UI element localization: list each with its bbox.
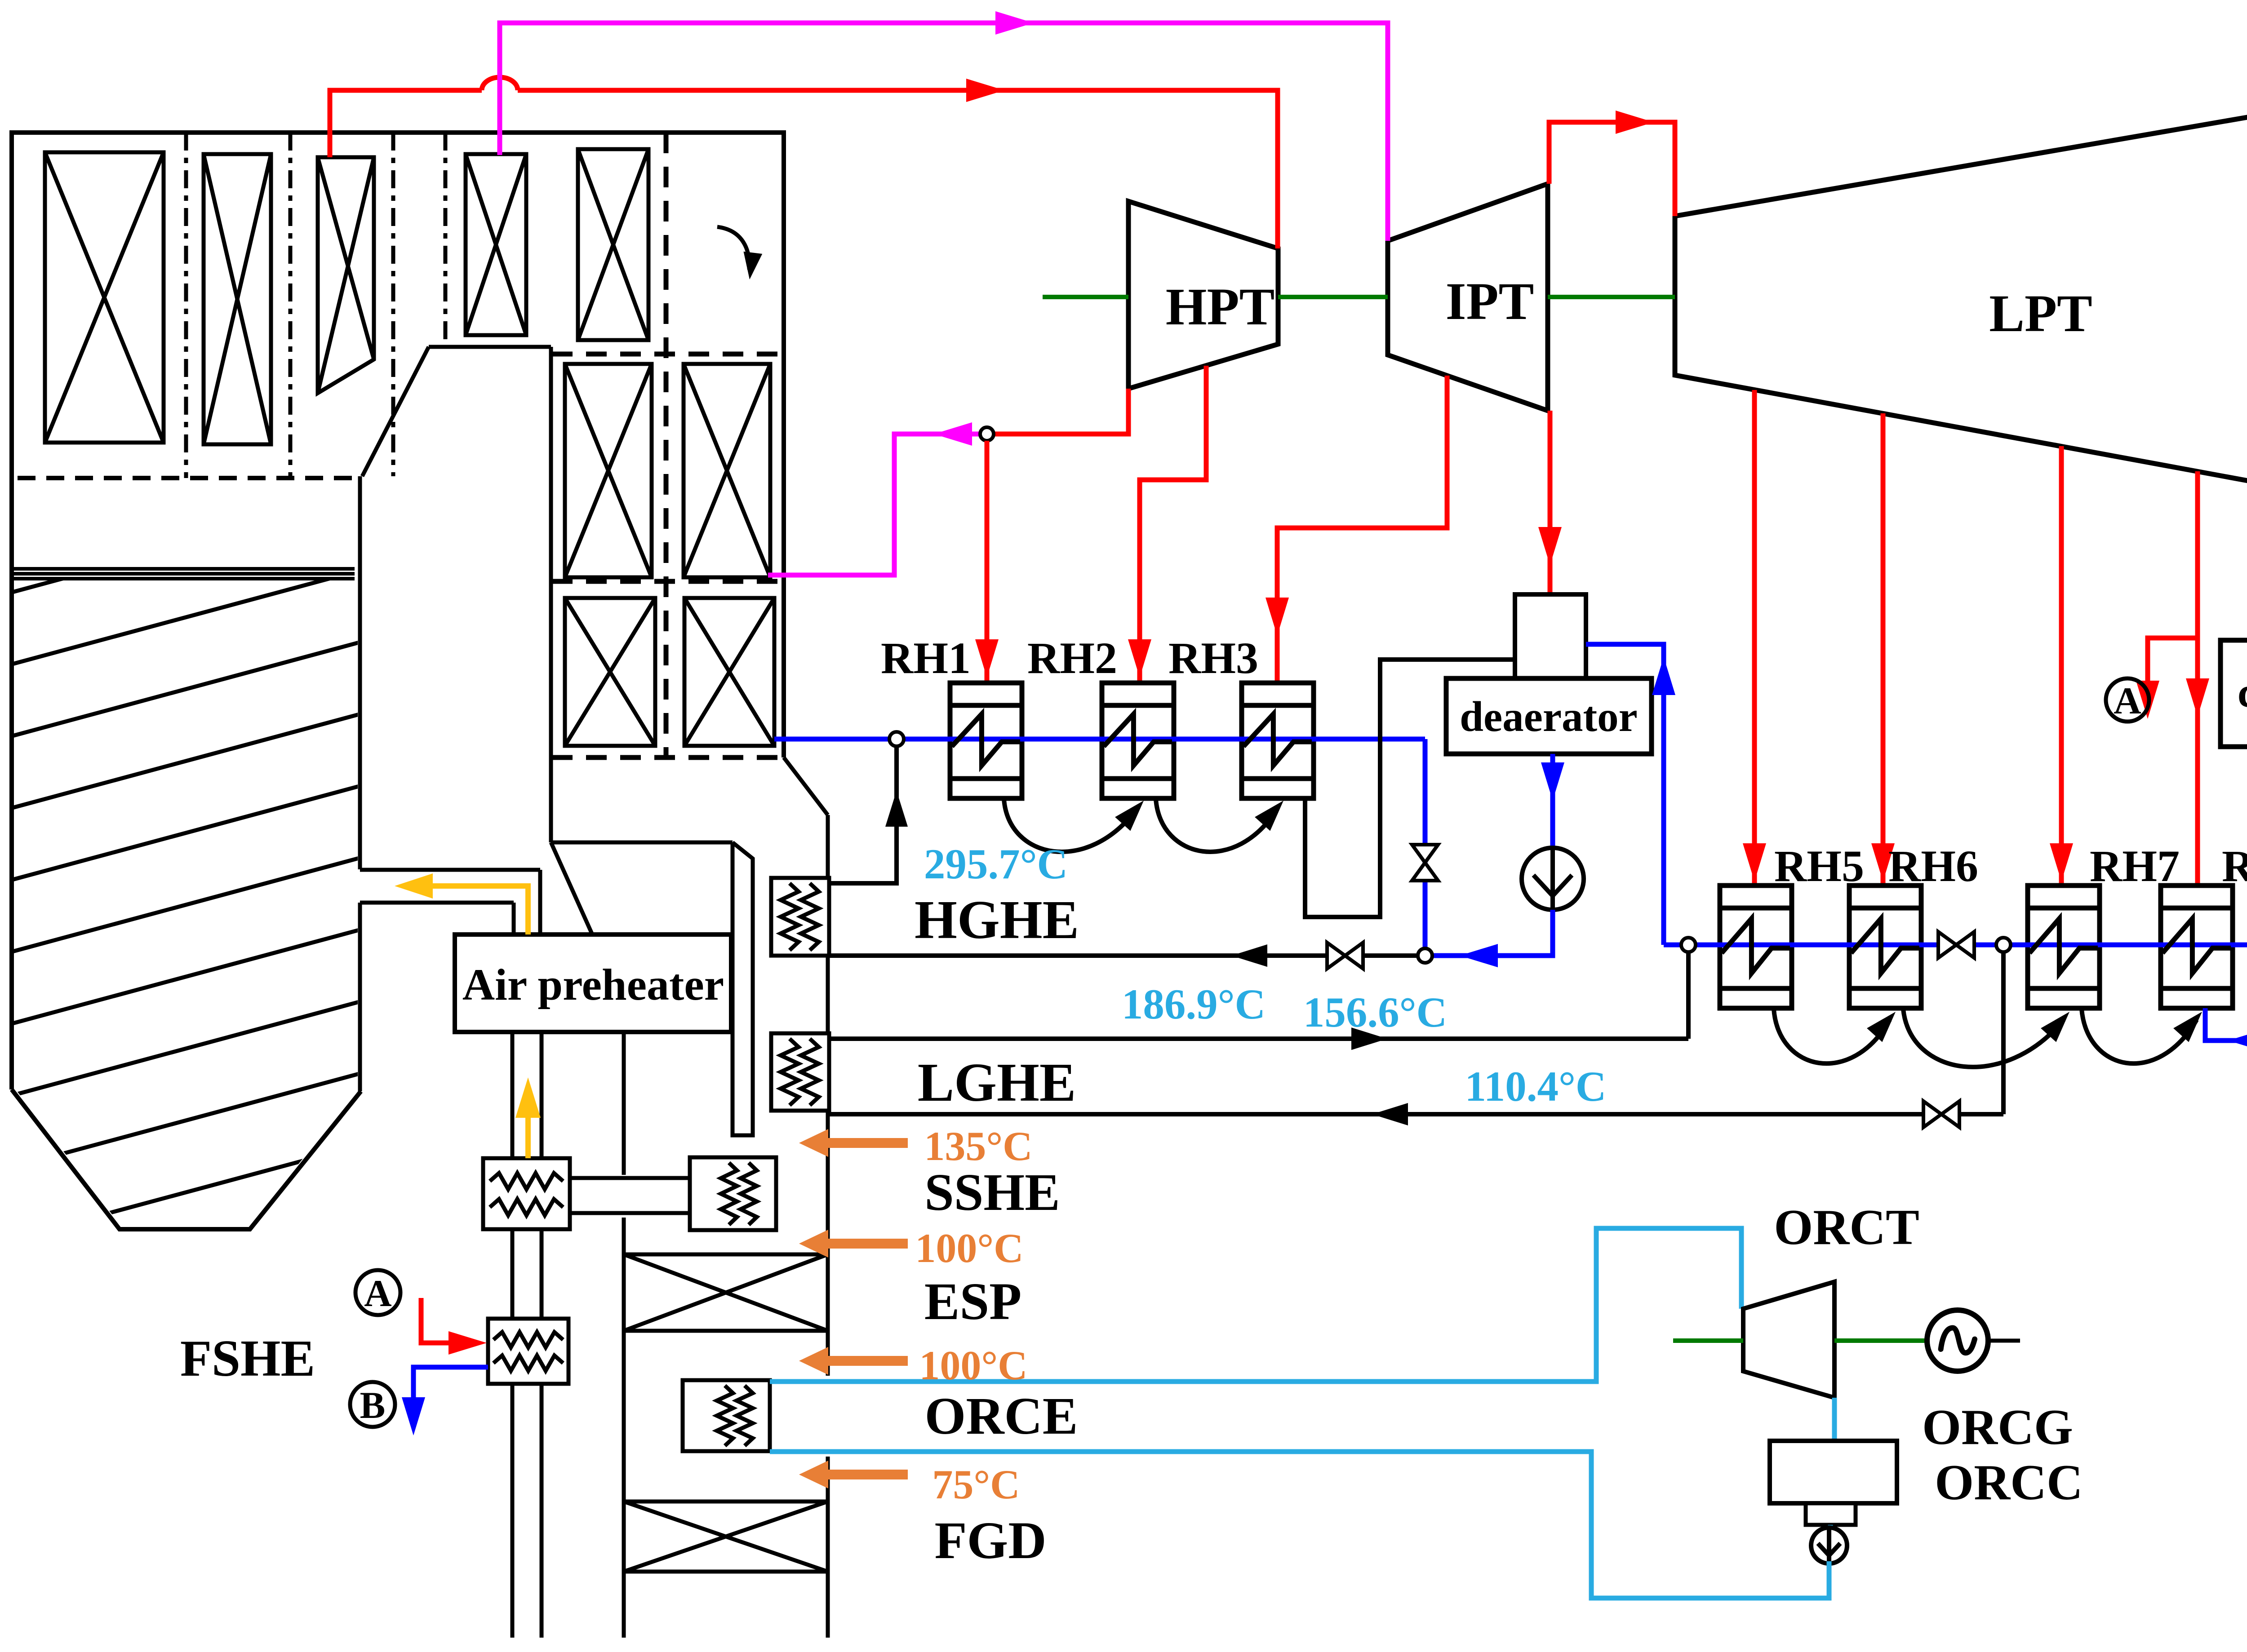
IPT-LPT crossover red [1549, 122, 1675, 216]
cold air line yellow [525, 1116, 531, 1158]
ESP box [624, 1254, 828, 1331]
feedwater junction node (HGHE return) [889, 732, 904, 746]
ORC shaft left [1673, 1338, 1743, 1343]
flue duct right wall c [826, 1111, 830, 1376]
separator bar [733, 842, 753, 1135]
condensate junction node LGHE return [1681, 938, 1696, 952]
ORCC outlet stub [1828, 1525, 1833, 1529]
flue duct right wall a [826, 815, 830, 878]
heater RH2 box [1102, 683, 1174, 798]
ORC hot line evaporator to turbine [770, 1228, 1741, 1382]
crossover arrow [1616, 111, 1654, 134]
flue duct right wall b [826, 956, 830, 1033]
flue gas arrow at 3282 [799, 1461, 908, 1488]
SSHE connector pipe bottom [570, 1211, 690, 1215]
RH6 heater symbol [1851, 919, 1919, 974]
superheater bank 5 [578, 149, 648, 340]
LGHE outlet arrow [1351, 1028, 1387, 1050]
transition top line [551, 841, 733, 845]
condensate junction node LGHE tap [1996, 938, 2011, 952]
extraction steam to RH1 [985, 441, 990, 683]
ORC shaft right [1834, 1338, 1927, 1343]
SSHE gas-side box [690, 1157, 776, 1230]
RH3 steam arrow [1266, 598, 1289, 636]
LGHE inlet arrow [1372, 1103, 1408, 1125]
drain arc RH2 to RH3 [1156, 799, 1277, 852]
air pipe left upper [511, 1032, 515, 1158]
B condensate line from FSHE [413, 1367, 488, 1402]
svg-text:RH6: RH6 [1888, 841, 1978, 891]
superheater bank 4 [466, 154, 526, 335]
extraction steam to RH8 [2195, 471, 2200, 886]
boiler top-pass floor [429, 345, 551, 349]
condensate riser arrow [1652, 657, 1675, 695]
deaerator head box [1515, 594, 1586, 682]
backpass dashed horizontal 2 [552, 579, 784, 584]
svg-text:RH5: RH5 [1774, 841, 1864, 891]
A steam line to FSHE [421, 1298, 454, 1343]
svg-text:ORCG: ORCG [1922, 1400, 2073, 1455]
FSHE condensate arrow [402, 1397, 425, 1435]
flue gas arrow at 2768 [799, 1230, 908, 1258]
svg-text:ESP: ESP [924, 1272, 1021, 1331]
backpass left wall [549, 347, 553, 842]
feedwater line [774, 737, 1425, 742]
heater RH8 box [2161, 886, 2233, 1008]
LGHE zigzag 1 [781, 1039, 799, 1105]
RH2 steam arrow [1128, 639, 1151, 678]
air pipe left lower [511, 1384, 515, 1638]
HGHE outlet pipe 295.7C [829, 746, 897, 883]
triple line 3 [13, 577, 355, 580]
svg-text:135°C: 135°C [924, 1123, 1032, 1169]
svg-text:condenser: condenser [2238, 669, 2247, 716]
svg-text:LGHE: LGHE [918, 1052, 1076, 1113]
svg-text:deaerator: deaerator [1460, 693, 1638, 740]
svg-text:FSHE: FSHE [180, 1330, 315, 1387]
furnace nose slant [362, 347, 429, 476]
extraction steam to RH3 [1277, 376, 1447, 683]
HGHE zigzag 2 [801, 883, 819, 950]
drain arc RH7 to RH8 [2082, 1009, 2197, 1063]
cold reheat junction node [980, 427, 994, 441]
FSHE box [488, 1319, 568, 1384]
LPT turbine [1675, 109, 2247, 489]
RH7 steam arrow [2050, 843, 2073, 881]
ORC cold return line [770, 1452, 1829, 1598]
SSHE zigzag 1 [721, 1163, 737, 1225]
ORCE zigzag 2 [737, 1386, 753, 1446]
RH5 heater symbol [1722, 919, 1790, 974]
hot air duct top wall [360, 868, 540, 872]
svg-text:110.4°C: 110.4°C [1465, 1063, 1606, 1110]
LGHE outlet pipe 156.6C [829, 1036, 1688, 1041]
flue gas arrow at 3029 [799, 1347, 908, 1375]
condensate line [1664, 943, 2247, 948]
backpass bank row2 right (economizer) [684, 598, 774, 746]
heater RH5 box [1720, 886, 1792, 1008]
svg-text:FGD: FGD [934, 1511, 1046, 1570]
flue gas arrow at 2544 [799, 1129, 908, 1157]
gas flow arrowhead [744, 252, 763, 279]
Air preheater box [455, 935, 731, 1032]
dash-dot divider 1 [184, 133, 188, 478]
hot reheat line magenta [500, 23, 1388, 241]
LGHE outlet riser [1686, 945, 1691, 1039]
superheater bank 2 [204, 154, 271, 444]
backpass bank row2 left [565, 598, 655, 746]
HGHE outlet arrow [885, 791, 908, 827]
RH8 drain / B return line [2205, 1008, 2247, 1041]
flue duct left wall a [622, 1032, 626, 1175]
RH8 heater symbol [2163, 919, 2231, 974]
furnace hopper [12, 1090, 361, 1229]
dash-dot divider 4 [444, 133, 448, 347]
svg-text:186.9°C: 186.9°C [1122, 980, 1266, 1028]
svg-text:A: A [364, 1272, 391, 1315]
air-side heater box [483, 1158, 570, 1229]
RH6 steam arrow [1871, 843, 1895, 881]
HPT turbine [1128, 201, 1278, 389]
dash-dot divider 3 [391, 133, 395, 476]
furnace hatching [9, 497, 364, 1528]
feed pump discharge arrow [1460, 944, 1498, 967]
FSHE zigzag 1 [493, 1332, 563, 1347]
feedwater riser to RH3 line [1423, 739, 1428, 948]
air heater zigzag 1 [490, 1173, 563, 1189]
LGHE zigzag 2 [801, 1039, 819, 1105]
extraction steam to RH5 [1752, 390, 1757, 886]
svg-text:Air preheater: Air preheater [462, 960, 724, 1010]
shaft HPT left [1043, 295, 1128, 299]
condensate riser to deaerator [1586, 644, 1664, 945]
hot reheat arrow [995, 11, 1034, 35]
drain arc RH5-RH6 arrowhead [1867, 1012, 1896, 1042]
ORCC hotwell [1806, 1503, 1856, 1525]
node A (turbine side) [2106, 678, 2149, 722]
valve on HGHE inlet [1327, 943, 1363, 969]
LGHE inlet pipe 110.4C [829, 1112, 2003, 1116]
steam branch to FSHE (A) [2148, 638, 2198, 683]
deaerator outlet arrow [1541, 762, 1564, 801]
RH3 drain pipe to deaerator [1305, 660, 1515, 917]
backpass dashed vertical [664, 133, 669, 757]
svg-text:295.7°C: 295.7°C [924, 840, 1068, 888]
shaft HPT-IPT [1278, 295, 1388, 299]
svg-text:100°C: 100°C [919, 1342, 1027, 1388]
ORC pump [1811, 1528, 1847, 1563]
heater RH3 box [1242, 683, 1314, 798]
feedwater junction node at HGHE tap [1418, 948, 1432, 963]
backpass right wall slant to duct [784, 757, 828, 815]
backpass dashed horizontal 3 [552, 755, 784, 760]
node A (FSHE) [355, 1270, 400, 1315]
extraction steam to RH7 [2059, 446, 2064, 886]
svg-text:ORCT: ORCT [1774, 1200, 1919, 1255]
deaerator outlet line [1550, 754, 1555, 848]
ORCC condenser box [1770, 1441, 1897, 1503]
svg-text:ORCE: ORCE [925, 1386, 1078, 1445]
RH1 heater symbol [952, 714, 1020, 765]
RH8 steam inline arrow [2186, 678, 2209, 717]
extraction steam to deaerator [1548, 411, 1553, 594]
dash-dot divider 2 [289, 133, 293, 478]
drain arc RH1-RH2 arrowhead [1115, 801, 1144, 831]
cold reheat arrow [934, 422, 972, 446]
drain arc RH6 to RH7 [1903, 1009, 2064, 1067]
FSHE zigzag 2 [493, 1355, 563, 1371]
valve on condensate line [1938, 932, 1974, 958]
flue duct right wall d [826, 1457, 830, 1638]
transition slant to air preheater [551, 842, 592, 935]
furnace right wall upper [358, 476, 362, 869]
svg-text:RH1: RH1 [881, 633, 971, 683]
svg-text:A: A [2114, 680, 2141, 722]
feed pump discharge line [1432, 910, 1553, 956]
svg-text:RH8: RH8 [2222, 841, 2247, 891]
deaerator steam arrow [1538, 527, 1562, 565]
triple line 2 [13, 572, 355, 576]
air heater zigzag 2 [490, 1199, 563, 1215]
HGHE inlet arrow [1231, 944, 1267, 967]
furnace right wall lower [358, 903, 362, 1091]
svg-text:B: B [360, 1384, 386, 1426]
drain arc RH7-RH8 arrowhead [2173, 1012, 2202, 1042]
RH2 heater symbol [1104, 714, 1172, 765]
gas flow curved arrow [717, 227, 749, 270]
ORCE zigzag 1 [717, 1386, 733, 1446]
hot air duct bottom wall [360, 901, 514, 905]
ORCT turbine [1743, 1282, 1834, 1398]
ORC generator symbol [1927, 1310, 1988, 1371]
SSHE connector pipe top [570, 1176, 690, 1180]
hot air line yellow [431, 886, 528, 935]
FGD box [624, 1501, 828, 1572]
FSHE steam arrow [449, 1331, 487, 1355]
SSHE zigzag 2 [741, 1163, 757, 1225]
cold reheat magenta to reheater [768, 434, 980, 575]
drain arc RH5 to RH6 [1774, 1009, 1890, 1063]
air pipe right mid [540, 1229, 544, 1319]
superheater bank 3 (slanted) [318, 157, 374, 393]
heater RH7 box [2028, 886, 2100, 1008]
svg-text:HGHE: HGHE [915, 890, 1079, 950]
svg-text:RH3: RH3 [1168, 633, 1258, 683]
RH7 heater symbol [2029, 919, 2098, 974]
drain arc RH2-RH3 arrowhead [1255, 801, 1283, 831]
valve on LGHE inlet [1923, 1101, 1959, 1127]
ORC generator lead [1988, 1339, 2020, 1343]
svg-text:75°C: 75°C [932, 1462, 1020, 1507]
extraction steam to RH6 [1881, 413, 1886, 886]
svg-text:LPT: LPT [1989, 284, 2092, 343]
ORCT exhaust line [1832, 1398, 1837, 1441]
drain arc RH1 to RH2 [1004, 799, 1137, 852]
ORCE evaporator box [683, 1380, 770, 1451]
hot air duct inner wall [512, 903, 516, 935]
triple line 1 [13, 567, 355, 571]
air pipe right upper [540, 1032, 544, 1158]
hot air arrow [395, 873, 433, 899]
svg-text:IPT: IPT [1446, 272, 1534, 331]
HGHE inlet pipe 186.9C [829, 953, 1418, 958]
IPT turbine [1388, 184, 1548, 411]
svg-text:RH2: RH2 [1027, 633, 1117, 683]
backpass bank row1 left [565, 364, 652, 577]
superheater bank 1 [45, 152, 164, 443]
LGHE heat exchanger [771, 1033, 829, 1111]
RH3 heater symbol [1243, 714, 1312, 765]
hot air duct right wall [538, 870, 542, 935]
cold reheat line red [994, 389, 1128, 434]
backpass bank row1 right (reheater) [684, 364, 770, 577]
node B (FSHE) [350, 1382, 395, 1427]
deaerator vessel [1446, 678, 1652, 754]
dashed furnace line [18, 476, 358, 480]
flue duct left wall b [622, 1218, 626, 1638]
boiler feed pump [1522, 848, 1584, 910]
svg-text:156.6°C: 156.6°C [1303, 988, 1447, 1036]
HGHE heat exchanger [771, 878, 829, 956]
RH5 steam arrow [1743, 843, 1766, 881]
HGHE zigzag 1 [781, 883, 799, 950]
extraction steam to RH2 [1140, 366, 1206, 683]
shaft IPT-LPT [1548, 295, 1675, 299]
RH1 steam arrow [975, 639, 999, 678]
svg-text:ORCC: ORCC [1935, 1455, 2083, 1510]
air pipe right lower [540, 1384, 544, 1638]
condenser box [2220, 640, 2247, 747]
heater RH1 box [950, 683, 1022, 798]
boiler outer walls [12, 133, 784, 1090]
svg-text:SSHE: SSHE [924, 1163, 1060, 1222]
A branch arrow [2136, 681, 2159, 719]
backpass dashed horizontal 1 [552, 352, 784, 357]
LGHE inlet downcomer [2001, 945, 2006, 1114]
heater RH6 box [1849, 886, 1921, 1008]
air pipe left mid [511, 1229, 515, 1319]
svg-text:RH7: RH7 [2090, 841, 2180, 891]
drain arc RH6-RH7 arrowhead [2041, 1012, 2069, 1042]
main steam line red [330, 77, 1278, 248]
cold air arrow up [515, 1077, 541, 1118]
svg-text:HPT: HPT [1166, 277, 1275, 336]
B return arrow [2228, 1029, 2247, 1052]
valve on feedwater riser [1412, 845, 1438, 881]
svg-text:100°C: 100°C [915, 1225, 1023, 1271]
main steam arrow [966, 79, 1004, 102]
